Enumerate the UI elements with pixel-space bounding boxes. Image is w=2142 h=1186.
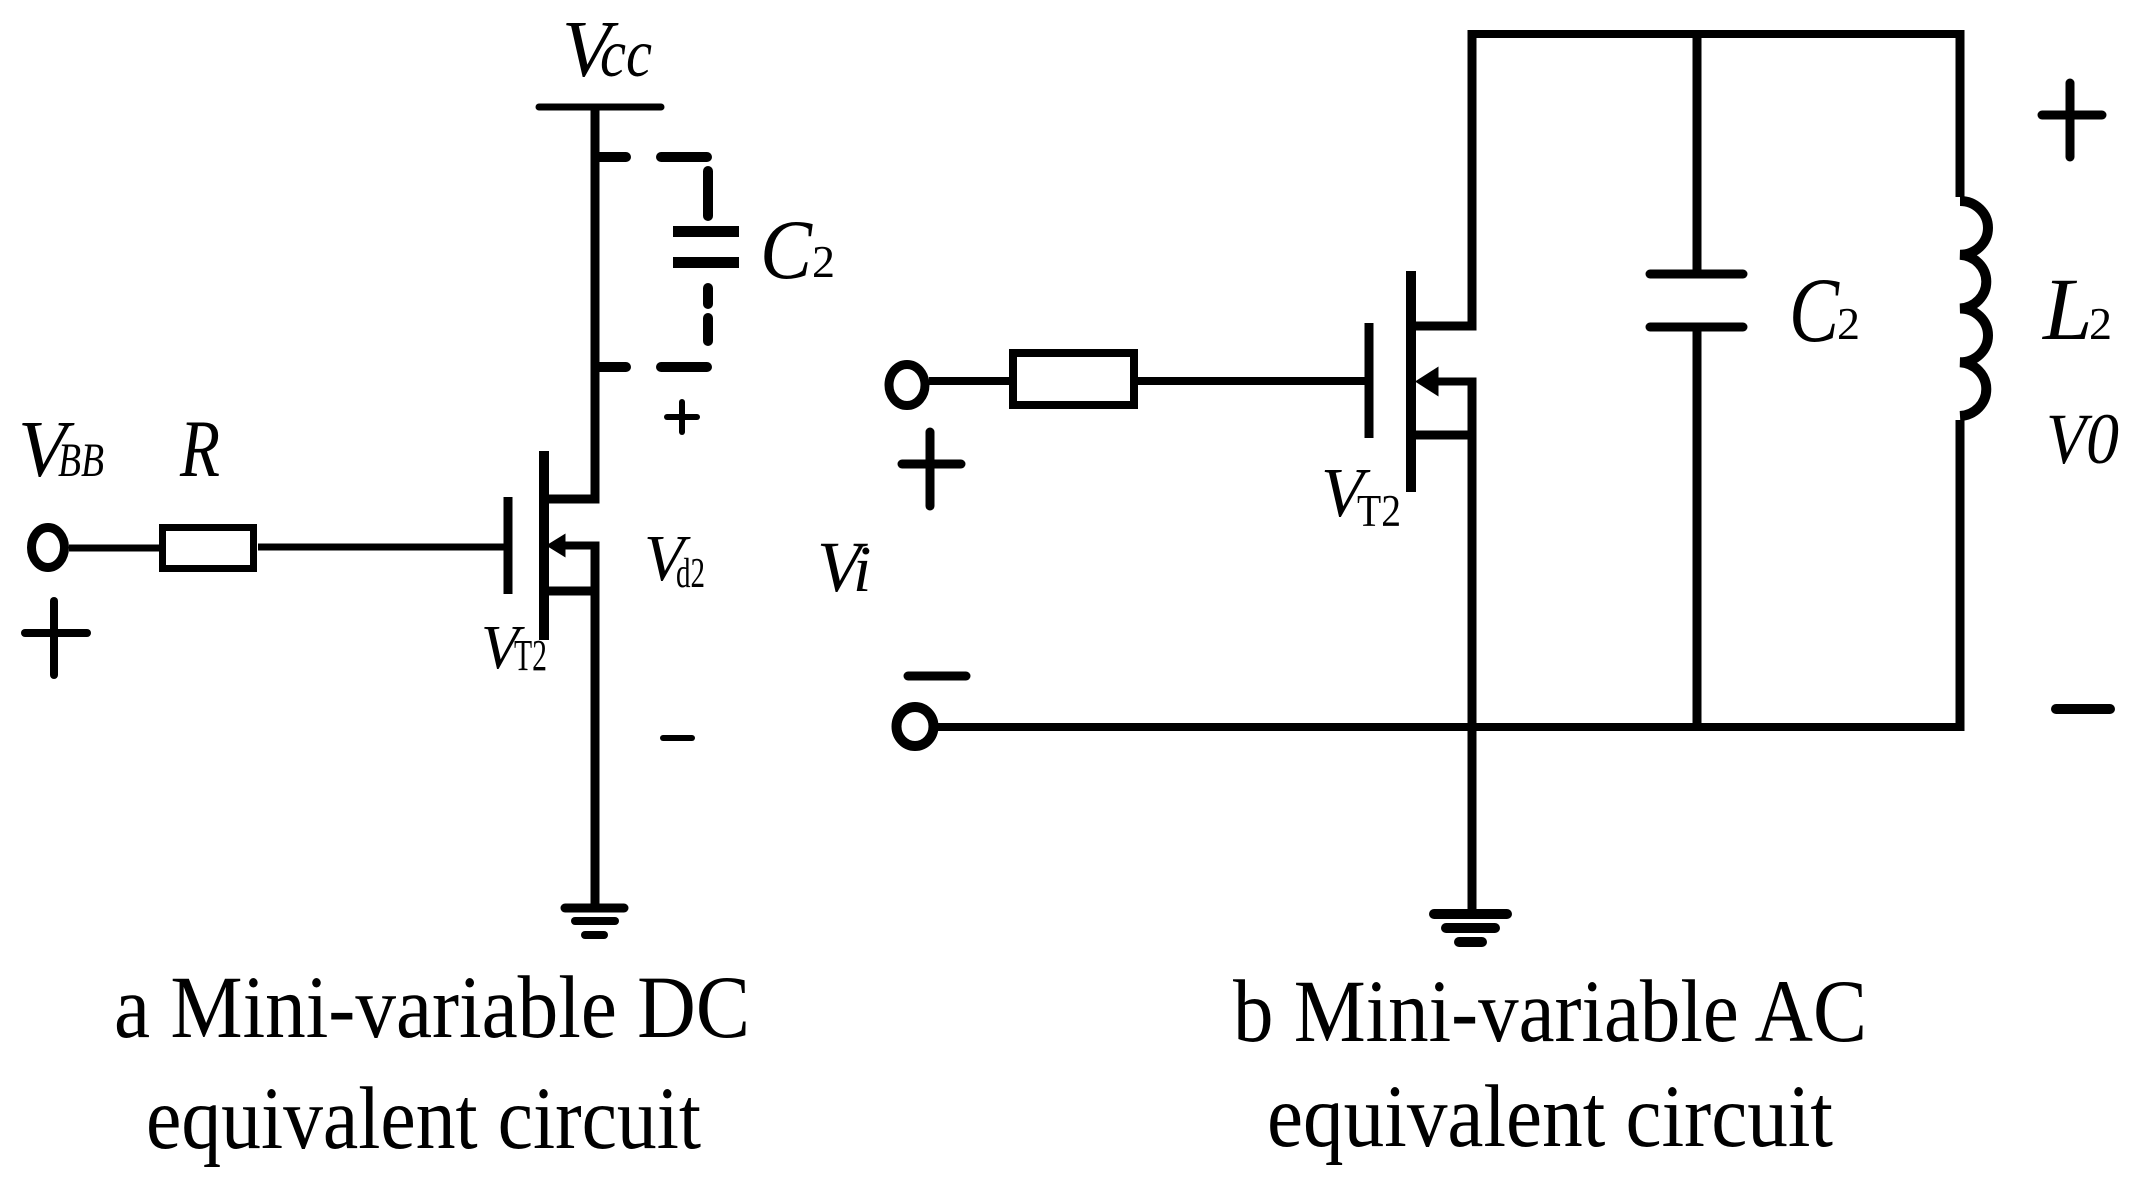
- label C2 (b): [1789, 259, 1860, 361]
- wire: bulk/source of VT2 (b) down to ground: [1468, 380, 1477, 909]
- svg-text:2: 2: [1837, 298, 1860, 349]
- svg-text:b Mini-variable AC: b Mini-variable AC: [1233, 963, 1867, 1061]
- svg-text:BB: BB: [58, 434, 104, 487]
- label VT2 (a): [481, 614, 547, 682]
- terminal Vi -: [897, 707, 934, 746]
- label L2: [2041, 261, 2112, 359]
- polarity + of V0: [2042, 83, 2102, 157]
- net VCC label: [562, 6, 652, 94]
- transistor VT2 (a): [508, 451, 600, 640]
- polarity - of Vi: [908, 672, 966, 681]
- polarity + of VBB: [25, 601, 87, 675]
- label VT2 (b): [1321, 455, 1401, 536]
- bottom rail wire: [938, 723, 1964, 731]
- VCC supply rail: [539, 104, 661, 111]
- polarity - of V0: [2056, 704, 2110, 714]
- channel bar: [1406, 271, 1416, 492]
- resistor R: [163, 528, 254, 569]
- label VBB: [18, 406, 104, 494]
- wire: top rail to capacitor C2 (b): [1693, 34, 1702, 270]
- drain stub: [1416, 322, 1472, 331]
- svg-text:2: 2: [2089, 298, 2112, 349]
- svg-text:2: 2: [812, 236, 835, 287]
- svg-text:equivalent circuit: equivalent circuit: [1267, 1068, 1833, 1166]
- inductor L2: [1960, 201, 1988, 416]
- capacitor C2 (a) top plate: [673, 226, 739, 237]
- top rail wire: [1468, 30, 1964, 38]
- wire: resistor (b) to gate of VT2 (b): [1138, 377, 1365, 385]
- terminal VBB: [32, 528, 65, 568]
- polarity + of Vd2: [667, 402, 697, 432]
- svg-text:d2: d2: [676, 551, 705, 597]
- capacitor C2 (a) dashed branch: lower dashed vertical: [703, 288, 713, 341]
- label Vi: [817, 527, 871, 607]
- svg-text:cc: cc: [600, 15, 652, 91]
- bulk stub with arrow: [563, 542, 600, 550]
- capacitor C2 (b) top plate: [1650, 270, 1743, 279]
- capacitor C2 (a) dashed branch: top dashed wire: [596, 152, 707, 162]
- svg-text:T2: T2: [1357, 486, 1401, 536]
- svg-text:T2: T2: [514, 631, 547, 680]
- polarity - of Vd2: [663, 735, 692, 741]
- ground (a): [565, 908, 624, 935]
- channel bar: [539, 451, 549, 640]
- source stub: [544, 587, 595, 596]
- wire: terminal Vi+ to resistor (b): [929, 377, 1009, 385]
- svg-text:equivalent circuit: equivalent circuit: [146, 1070, 701, 1168]
- wire: terminal VBB to resistor R: [69, 545, 159, 552]
- wire: top rail right corner down to inductor L2: [1956, 30, 1965, 197]
- capacitor C2 (a) dashed branch: upper dashed vertical: [703, 171, 713, 216]
- svg-text:a Mini-variable DC: a Mini-variable DC: [114, 959, 750, 1057]
- gate bar: [1365, 323, 1374, 438]
- polarity + of Vi: [902, 432, 961, 506]
- label C2 (a): [760, 203, 835, 297]
- wire: capacitor C2 (b) to bottom rail: [1693, 331, 1702, 727]
- wire: resistor R to gate of VT2 (a): [258, 544, 504, 551]
- wire: drain of VT2 (b) up to top rail: [1468, 30, 1477, 331]
- svg-text:R: R: [179, 403, 220, 494]
- label Vd2: [644, 522, 705, 597]
- terminal Vi +: [889, 365, 925, 406]
- svg-text:C: C: [760, 203, 813, 297]
- wire: VCC rail to drain stub of VT2: [549, 107, 595, 499]
- wire: bulk/source of VT2 (a) down to ground: [591, 544, 600, 905]
- bulk stub with arrow: [1436, 378, 1477, 386]
- capacitor C2 (b) bottom plate: [1650, 323, 1743, 332]
- source stub: [1411, 431, 1476, 440]
- svg-text:V0: V0: [2046, 399, 2119, 479]
- capacitor C2 (a) bottom plate: [673, 257, 739, 268]
- resistor (b): [1013, 353, 1134, 405]
- ground (b): [1434, 914, 1507, 942]
- svg-text:i: i: [853, 533, 871, 606]
- svg-text:C: C: [1789, 259, 1840, 361]
- svg-text:L: L: [2041, 261, 2093, 359]
- wire: inductor L2 to bottom rail: [1956, 420, 1965, 731]
- transistor VT2 (b): [1369, 271, 1477, 492]
- capacitor C2 (a) dashed branch: bottom dashed wire: [596, 362, 707, 372]
- gate bar: [504, 497, 513, 594]
